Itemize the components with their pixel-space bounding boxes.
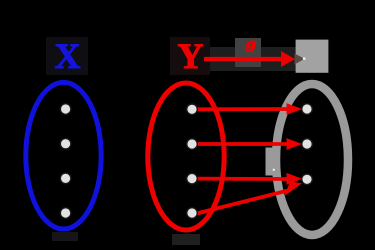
point z3 <box>302 174 313 185</box>
set Y ellipse <box>148 83 224 230</box>
set X ellipse <box>26 82 101 229</box>
point x3 <box>60 173 71 184</box>
point y2 <box>187 139 198 150</box>
blocky step on gray ellipse left arc <box>266 148 274 176</box>
label g <box>245 35 256 51</box>
jpeg halo block behind g <box>235 38 261 67</box>
point x4 <box>60 208 71 219</box>
arrow y2 -> z2 <box>197 142 291 146</box>
point z2 <box>302 139 313 150</box>
point x1 <box>60 104 71 115</box>
formula arrow head <box>281 51 295 67</box>
point y1 <box>187 104 198 115</box>
svg-text:g: g <box>245 35 256 51</box>
set Z ellipse (gray) <box>276 84 348 235</box>
jpeg halo around label X <box>46 37 88 75</box>
jpeg halo around label Y <box>170 37 210 75</box>
point z1 <box>302 104 313 115</box>
jpeg shadow under red ellipse bottom <box>172 234 200 245</box>
point x2 <box>60 138 71 149</box>
formula arrow dark tip over square <box>295 54 305 65</box>
svg-text:Y: Y <box>178 36 204 76</box>
jpeg halo around formula arrow <box>196 47 296 71</box>
white speck on gray arc <box>273 169 275 171</box>
white speck at arrow tip <box>303 57 306 60</box>
point y4 <box>187 208 198 219</box>
point y3 <box>187 173 198 184</box>
gray placeholder square (Z) <box>296 40 329 73</box>
svg-text:X: X <box>55 36 81 76</box>
arrow y4 -> z3 (curved) <box>197 190 291 214</box>
jpeg shadow under blue ellipse bottom <box>52 232 78 241</box>
arrow y1 -> z1 <box>197 107 291 111</box>
formula arrow shaft g: Y -> Z <box>204 57 284 61</box>
arrow y3 -> z3 <box>197 177 291 181</box>
